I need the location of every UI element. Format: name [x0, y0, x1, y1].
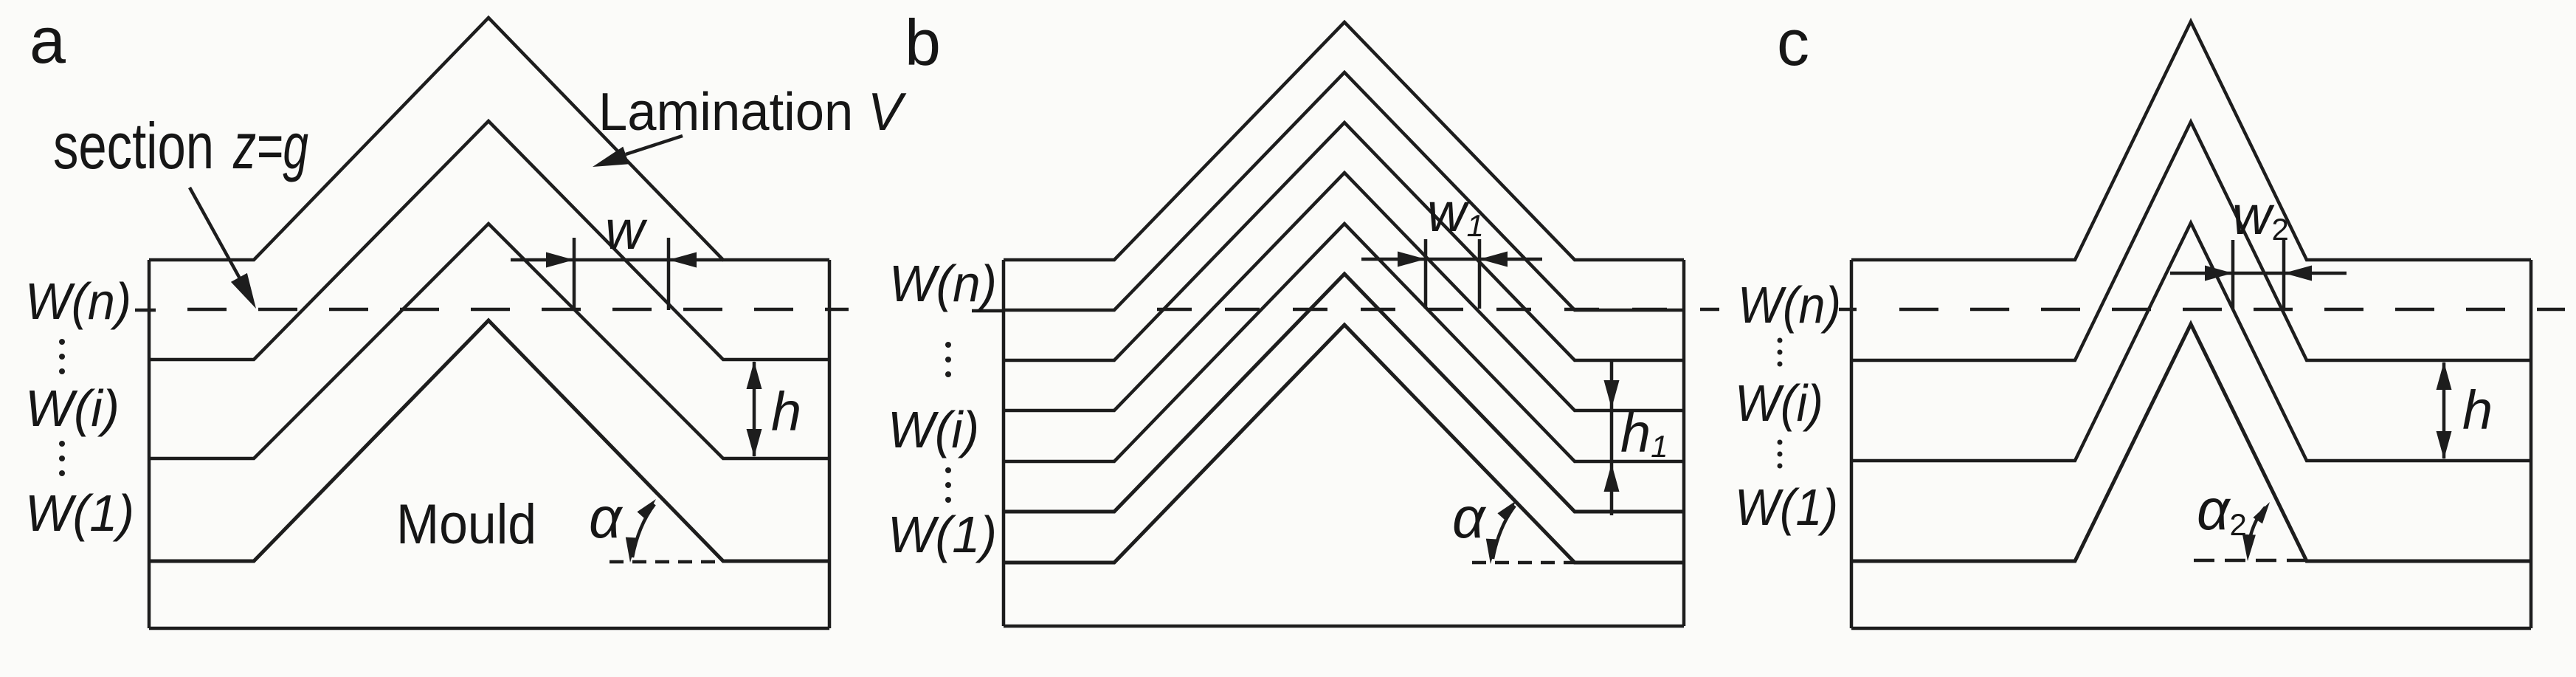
panel a dimension w right arrowhead	[669, 252, 697, 268]
panel a lamination surface 3 (top)	[149, 18, 829, 260]
svg-text:h: h	[2462, 379, 2493, 441]
panel b lamination surface 6 (top)	[1004, 22, 1684, 260]
panel a lamination label arrowhead	[593, 147, 629, 167]
panel b W(n) label connector dash	[972, 309, 1004, 313]
panel b dimension w1 right tick	[1478, 239, 1482, 309]
svg-text:W(1): W(1)	[888, 506, 997, 563]
panel a alpha angle dotted baseline	[610, 560, 723, 564]
svg-text:section: section	[53, 109, 214, 182]
panel b lamination surface 5	[1004, 72, 1684, 310]
panel c lamination surface 1	[1851, 223, 2531, 461]
panel b ellipsis dots upper	[945, 342, 951, 377]
panel c mould box left edge	[1850, 260, 1854, 628]
svg-text:W(i): W(i)	[25, 379, 120, 437]
svg-text:W(1): W(1)	[1735, 478, 1838, 536]
panel c dimension h top arrowhead	[2437, 362, 2452, 390]
panel b mould box right edge	[1682, 260, 1686, 626]
panel a section label arrow shaft	[190, 188, 244, 286]
panel c alpha2 angle arc	[2248, 507, 2265, 550]
panel a lamination surface 2	[149, 121, 829, 360]
panel b ellipsis dots lower	[945, 467, 951, 503]
panel c lamination surface 3 (top)	[1851, 21, 2531, 260]
svg-text:Lamination V: Lamination V	[598, 83, 907, 142]
panel a dimension w left tick	[573, 238, 576, 310]
panel b alpha arc top arrowhead	[1497, 501, 1516, 520]
svg-text:a: a	[30, 4, 66, 77]
panel b dimension h1 line	[1610, 360, 1614, 515]
panel a dimension h arrow line	[753, 362, 756, 456]
panel a mould box left edge	[148, 260, 151, 628]
panel c dimension h bottom arrowhead	[2437, 431, 2452, 459]
panel c section dashed line	[1899, 308, 2565, 312]
panel c dimension h line	[2442, 362, 2446, 458]
panel b dimension w1 right arrowhead	[1479, 252, 1508, 267]
panel b lamination surface 3	[1004, 173, 1684, 410]
svg-text:z=g: z=g	[232, 109, 308, 182]
panel b section dashed line	[1157, 308, 1719, 312]
panel c ellipsis dots lower	[1778, 440, 1783, 469]
panel b lamination surface 1	[1004, 274, 1684, 512]
panel a lamination surface 1	[149, 224, 829, 458]
svg-text:W(n): W(n)	[889, 255, 997, 312]
panel b mould box bottom edge	[1004, 625, 1684, 628]
panel a dimension w left arrowhead	[546, 252, 574, 268]
panel b dimension w1 left arrowhead	[1398, 252, 1426, 267]
panel a dimension w right tick	[667, 238, 671, 310]
panel c W(n) label connector dash	[1839, 308, 1857, 312]
svg-text:α: α	[589, 485, 624, 550]
panel a lamination label arrow shaft	[626, 136, 683, 154]
panel a mould top surface	[149, 320, 829, 561]
panel a alpha arc top arrowhead	[637, 499, 656, 519]
panel c mould box right edge	[2530, 260, 2533, 628]
panel b alpha angle arc	[1493, 506, 1515, 559]
panel a W(n) label connector dash	[135, 309, 156, 312]
panel b alpha arc bottom arrowhead	[1486, 539, 1498, 564]
panel b dimension w1 left tick	[1424, 239, 1428, 309]
panel a dimension h bottom arrowhead	[747, 429, 762, 457]
panel c dimension w2 left tick	[2231, 240, 2235, 309]
panel b dimension w1 line	[1361, 258, 1542, 261]
panel b alpha angle dotted baseline	[1472, 561, 1575, 565]
panel a ellipsis dots upper	[59, 339, 65, 374]
panel a alpha arc bottom arrowhead	[626, 537, 638, 563]
panel b dimension h1 up arrowhead	[1604, 464, 1620, 492]
panel c lamination surface 2	[1851, 122, 2531, 360]
panel b mould box left edge	[1002, 260, 1006, 626]
panel b lamination surface 2	[1004, 224, 1684, 461]
panel a mould box right edge	[828, 260, 832, 628]
panel c alpha2 angle dotted baseline	[2194, 559, 2307, 563]
panel a dimension h top arrowhead	[747, 361, 762, 389]
panel c ellipsis dots upper	[1778, 338, 1783, 367]
panel a section dashed line	[187, 308, 849, 312]
svg-text:α: α	[1452, 485, 1487, 550]
panel a ellipsis dots lower	[59, 441, 65, 476]
panel c dimension w2 left arrowhead	[2205, 266, 2233, 281]
panel a section label arrowhead	[231, 273, 256, 309]
svg-text:W(n): W(n)	[25, 272, 131, 330]
panel c alpha2 arc top arrowhead	[2253, 502, 2270, 523]
svg-text:W(i): W(i)	[1735, 374, 1823, 432]
svg-text:h: h	[771, 381, 801, 442]
panel c mould top surface	[1851, 324, 2531, 561]
panel c mould box bottom edge	[1851, 627, 2531, 630]
svg-text:W(1): W(1)	[25, 484, 134, 542]
svg-text:W(i): W(i)	[888, 401, 979, 458]
svg-text:b: b	[905, 6, 941, 79]
panel c dimension w2 line	[2170, 272, 2347, 275]
panel c dimension w2 right arrowhead	[2284, 266, 2312, 281]
panel b lamination surface 4	[1004, 123, 1684, 360]
panel a alpha angle arc	[632, 504, 655, 557]
panel a mould box bottom edge	[149, 627, 829, 630]
svg-text:w: w	[605, 199, 648, 261]
panel b mould top surface	[1004, 325, 1684, 563]
panel c dimension w2 right tick	[2282, 240, 2286, 311]
panel a dimension w line	[511, 258, 723, 262]
svg-text:Mould: Mould	[396, 493, 536, 556]
svg-text:c: c	[1777, 6, 1809, 79]
panel b dimension h1 down arrowhead	[1604, 380, 1620, 408]
panel c alpha2 arc bottom arrowhead	[2242, 535, 2256, 561]
svg-text:W(n): W(n)	[1738, 276, 1841, 334]
